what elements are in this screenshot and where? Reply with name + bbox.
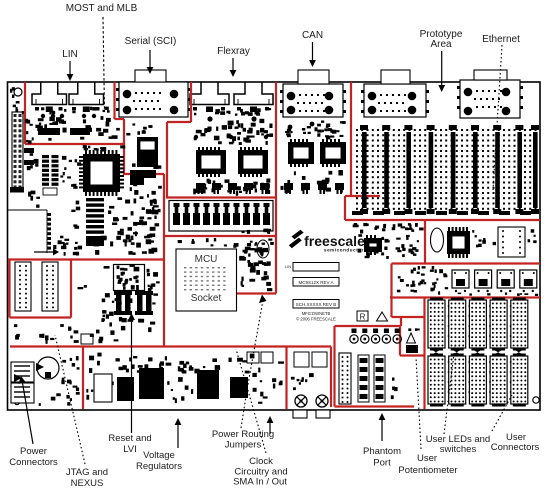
svg-text:NEXUS: NEXUS	[71, 478, 104, 489]
svg-text:MFG:DWNETB: MFG:DWNETB	[302, 311, 331, 316]
svg-text:Phantom: Phantom	[363, 446, 401, 457]
svg-text:© 2006 FREESCALE: © 2006 FREESCALE	[296, 317, 336, 322]
svg-text:Voltage: Voltage	[143, 450, 175, 461]
svg-text:Serial (SCI): Serial (SCI)	[125, 36, 177, 47]
svg-text:MOST and MLB: MOST and MLB	[66, 3, 138, 14]
svg-text:Connectors: Connectors	[9, 457, 58, 468]
svg-text:Power Routing: Power Routing	[212, 429, 274, 440]
svg-text:MCU: MCU	[195, 254, 218, 265]
svg-text:Clock: Clock	[249, 456, 273, 467]
svg-text:SCH.XXXXX REV B: SCH.XXXXX REV B	[296, 302, 337, 307]
svg-text:Flexray: Flexray	[217, 46, 250, 57]
svg-text:Potentiometer: Potentiometer	[398, 465, 457, 476]
svg-text:Jumpers: Jumpers	[225, 440, 262, 451]
svg-text:Connectors: Connectors	[491, 442, 540, 453]
svg-text:MC9S12X REV A: MC9S12X REV A	[298, 280, 333, 285]
svg-text:LVI: LVI	[123, 444, 137, 455]
svg-text:Reset and: Reset and	[108, 433, 151, 444]
svg-text:Power: Power	[20, 446, 47, 457]
svg-text:Regulators: Regulators	[136, 461, 182, 472]
svg-text:Area: Area	[430, 39, 452, 50]
svg-text:CAN: CAN	[302, 30, 323, 41]
svg-text:JTAG and: JTAG and	[66, 467, 108, 478]
svg-text:switches: switches	[440, 444, 477, 455]
svg-text:LIN: LIN	[285, 264, 291, 269]
svg-text:Socket: Socket	[191, 293, 222, 304]
svg-text:Ethernet: Ethernet	[482, 34, 520, 45]
svg-text:Port: Port	[373, 458, 391, 469]
svg-text:LIN: LIN	[62, 49, 78, 60]
svg-text:SMA In / Out: SMA In / Out	[233, 477, 287, 488]
svg-text:User: User	[417, 453, 437, 464]
svg-text:R: R	[360, 313, 366, 322]
